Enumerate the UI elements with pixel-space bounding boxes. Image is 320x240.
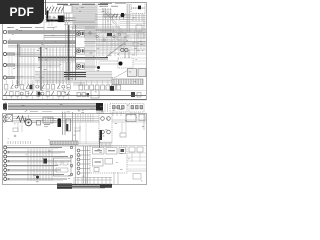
small component rects mid-right (104, 14, 117, 17)
gauge feed vertical (74, 25, 76, 80)
small comp mid-left sheet2 (13, 128, 18, 132)
relay contact dark body (138, 6, 141, 10)
left vertical wires (22, 48, 34, 86)
ignition switch box left (6, 115, 13, 122)
dark relay bottom row (110, 86, 114, 91)
band boundary line sheet 2 (3, 145, 147, 147)
dark bottom wire sheet 1 (3, 95, 146, 97)
wire through gauges (71, 26, 73, 80)
feeder vertical at badge edge (45, 0, 47, 15)
connector row D terminal (3, 63, 6, 66)
junction rectangle mid-left (20, 47, 76, 57)
dark comps right bottom row (131, 92, 141, 97)
mid-left dark vertical pair (40, 47, 41, 90)
dark junction dot mid (97, 66, 100, 69)
indicator lamp pair (121, 48, 128, 51)
junction rectangle divider (40, 47, 42, 57)
instrument gauge G2 (77, 48, 85, 55)
switch cross mark (6, 115, 13, 122)
marks under fuse ladder (44, 125, 50, 127)
drop wire right of relay (72, 112, 74, 144)
terminal box T2 (dashed) (129, 104, 144, 113)
resistor zigzag (17, 116, 27, 122)
drop wires upper band (14, 122, 22, 137)
ground cluster dark block (57, 184, 72, 190)
ecu box (dashed) lower right (90, 146, 127, 173)
diagonal wire right-lower (114, 68, 132, 78)
instrument gauge G1 (77, 30, 85, 37)
right-center vertical wires (86, 26, 99, 71)
thin duct lines between rows (44, 35, 146, 37)
dark relay in row 1 (30, 85, 33, 89)
cross links right of bundle (98, 10, 112, 13)
lower-left connector rows (4, 146, 73, 181)
dense lower-middle harness (35, 72, 112, 83)
fuse ladder box (43, 117, 53, 123)
component row 2 bottom of sheet 1 (5, 91, 70, 99)
stub wires into ground bus (74, 177, 110, 185)
sheet 2 vertical divider (75, 114, 77, 185)
center vertical wires through junction (44, 20, 70, 84)
left dark vertical feeder pair (18, 44, 20, 86)
wires under control box (133, 58, 146, 64)
module-to-band verticals (102, 143, 110, 147)
right edge boxes sheet 2 (128, 147, 146, 179)
sheet 2 main border frame (3, 114, 147, 185)
wires below junction block (97, 111, 103, 115)
cable run bar row B (8, 41, 76, 44)
boxlet right mid (136, 25, 142, 31)
connector row C terminal (3, 52, 6, 55)
vertical wire grid lower-left (28, 149, 52, 181)
wires row C (15, 53, 41, 56)
connector row E terminal (3, 76, 6, 79)
sheet divider line (3, 99, 147, 101)
dot junction lower-left (36, 176, 39, 179)
terminal strip right (striped) (112, 79, 143, 85)
connector row A terminal circle (3, 30, 6, 33)
wire stubs near bus (47, 13, 76, 22)
diagonal wire right-mid (106, 40, 128, 57)
header bus junction block dark (96, 103, 103, 111)
fuse ladder ribs (46, 117, 51, 123)
labels under bus (30, 111, 52, 113)
aux box far right sheet 2 (139, 115, 145, 121)
right-center horizontal mesh (72, 29, 146, 55)
title dashes far right (100, 2, 126, 4)
labels left of solenoid (50, 119, 57, 123)
mid-right vertical wires (103, 8, 111, 33)
instrument gauge G3 (77, 63, 85, 70)
junction rectangle internal wires (21, 50, 75, 55)
gauge output stubs (84, 34, 96, 68)
relay box K10 (dashed) (131, 3, 145, 8)
dense harness mid lines (38, 58, 108, 63)
connector row B terminal circle (3, 40, 6, 43)
wires into control unit (100, 50, 129, 64)
junction block J0 (58, 16, 65, 23)
module box B2 (138, 69, 146, 77)
aux box right sheet 2 (126, 115, 136, 122)
wires above ground bus (75, 172, 118, 184)
terminals inside T1/T2 (113, 106, 143, 109)
left margin terminals sheet 2 (3, 116, 5, 122)
terminal box T1 (dashed) (110, 104, 127, 113)
small terminal circles mid (89, 32, 105, 41)
dashed boxlet right (138, 33, 144, 38)
bus left end connector dark (3, 104, 7, 110)
solenoid dark body (57, 118, 61, 127)
right-mid horizontal wires (96, 30, 146, 53)
scan speck texture (6, 6, 144, 182)
wires right sheet 2 (112, 114, 146, 130)
dark connector block lower-left (44, 159, 48, 164)
switch box right of it (117, 33, 126, 40)
horizontal bundle upper right (113, 16, 146, 34)
switch box top-center (64, 6, 73, 14)
diagonal harness right (102, 8, 124, 33)
right vertical wires (103, 34, 129, 58)
labels above bent wire (74, 127, 79, 129)
resistor block (37, 121, 41, 126)
upper-right mesh verticals (112, 33, 124, 48)
row E shield stub (8, 76, 15, 78)
wires from relay boxes (95, 3, 142, 28)
narrow relay box with dark core (66, 119, 71, 131)
tick row lower band sheet2 (8, 141, 31, 144)
component row 1 bottom of sheet 1 (5, 80, 71, 89)
row C drop wires (9, 56, 12, 76)
control unit box (dashed) with indicator (118, 58, 133, 68)
relay box K11 (dashed) (131, 9, 145, 14)
module box B1 (128, 69, 137, 77)
textured band mid sheet2 (50, 138, 112, 148)
heavy center bus vertical (68, 25, 70, 80)
heavy supply bus wire (47, 11, 58, 21)
wires row A to right edge (76, 31, 147, 34)
wires row B extras (8, 42, 146, 47)
feeder verticals into sheet2 band (78, 114, 93, 145)
sheet 2 header bus wires (5, 103, 96, 110)
dark relay in row 2 (38, 92, 41, 96)
motor leads (29, 115, 37, 123)
starter motor circle (25, 119, 32, 126)
row C shield stub (8, 53, 15, 55)
small comps right-bottom sheet1 (77, 93, 89, 97)
top-center vertical wire bundle (73, 4, 97, 29)
bent wire to module (74, 126, 80, 131)
vertical pair right (127, 4, 130, 33)
ground bus lines (72, 185, 112, 188)
title text row sheet 1 (57, 4, 118, 6)
cable run bar row A (8, 31, 76, 34)
dashed distribution box mid (96, 30, 114, 40)
schematic sheet 1 border frame (3, 3, 147, 100)
ground bus tail dark (100, 185, 112, 188)
comp below aux box (120, 122, 126, 137)
lower-right connector column (77, 149, 90, 174)
vertical feeders to ground cluster (84, 146, 88, 184)
wires upper right area (95, 14, 146, 32)
wires row E (15, 77, 36, 79)
wire harness top center-right (64, 22, 120, 27)
bus line across bottom sheet 1 (4, 89, 146, 91)
fuse row right F10-F13 (113, 14, 126, 20)
indicator lamp dark dot (119, 62, 123, 66)
solenoid lead wires (63, 112, 66, 136)
labels near bus (45, 16, 53, 26)
bus-to-box link verticals (105, 104, 108, 113)
striped terminal strip (50, 141, 78, 145)
row D shield stub (8, 64, 15, 66)
junction module dark bar (100, 130, 103, 140)
dark switch right upper (107, 33, 112, 36)
junction module (dashed) with ports (99, 114, 112, 143)
right edge vertical wires (120, 33, 146, 55)
wires row D (15, 64, 61, 67)
right column verticals (135, 30, 137, 56)
verticals from harness to bottom row (74, 82, 84, 86)
white module box right-bottom sheet1 (91, 90, 99, 98)
PDF badge overlay (0, 0, 44, 24)
component row right half sheet 1 (79, 80, 121, 90)
feed wires upper sheet 2 (13, 117, 100, 123)
wires below terminal boxes (113, 112, 139, 116)
dark component right top (121, 13, 124, 17)
labels under badge (7, 27, 55, 29)
relay box lower middle (54, 158, 72, 176)
verticals into junction box (66, 22, 68, 80)
ecu-to-border wires (127, 153, 146, 169)
fuse row F1-F6 (45, 7, 64, 13)
